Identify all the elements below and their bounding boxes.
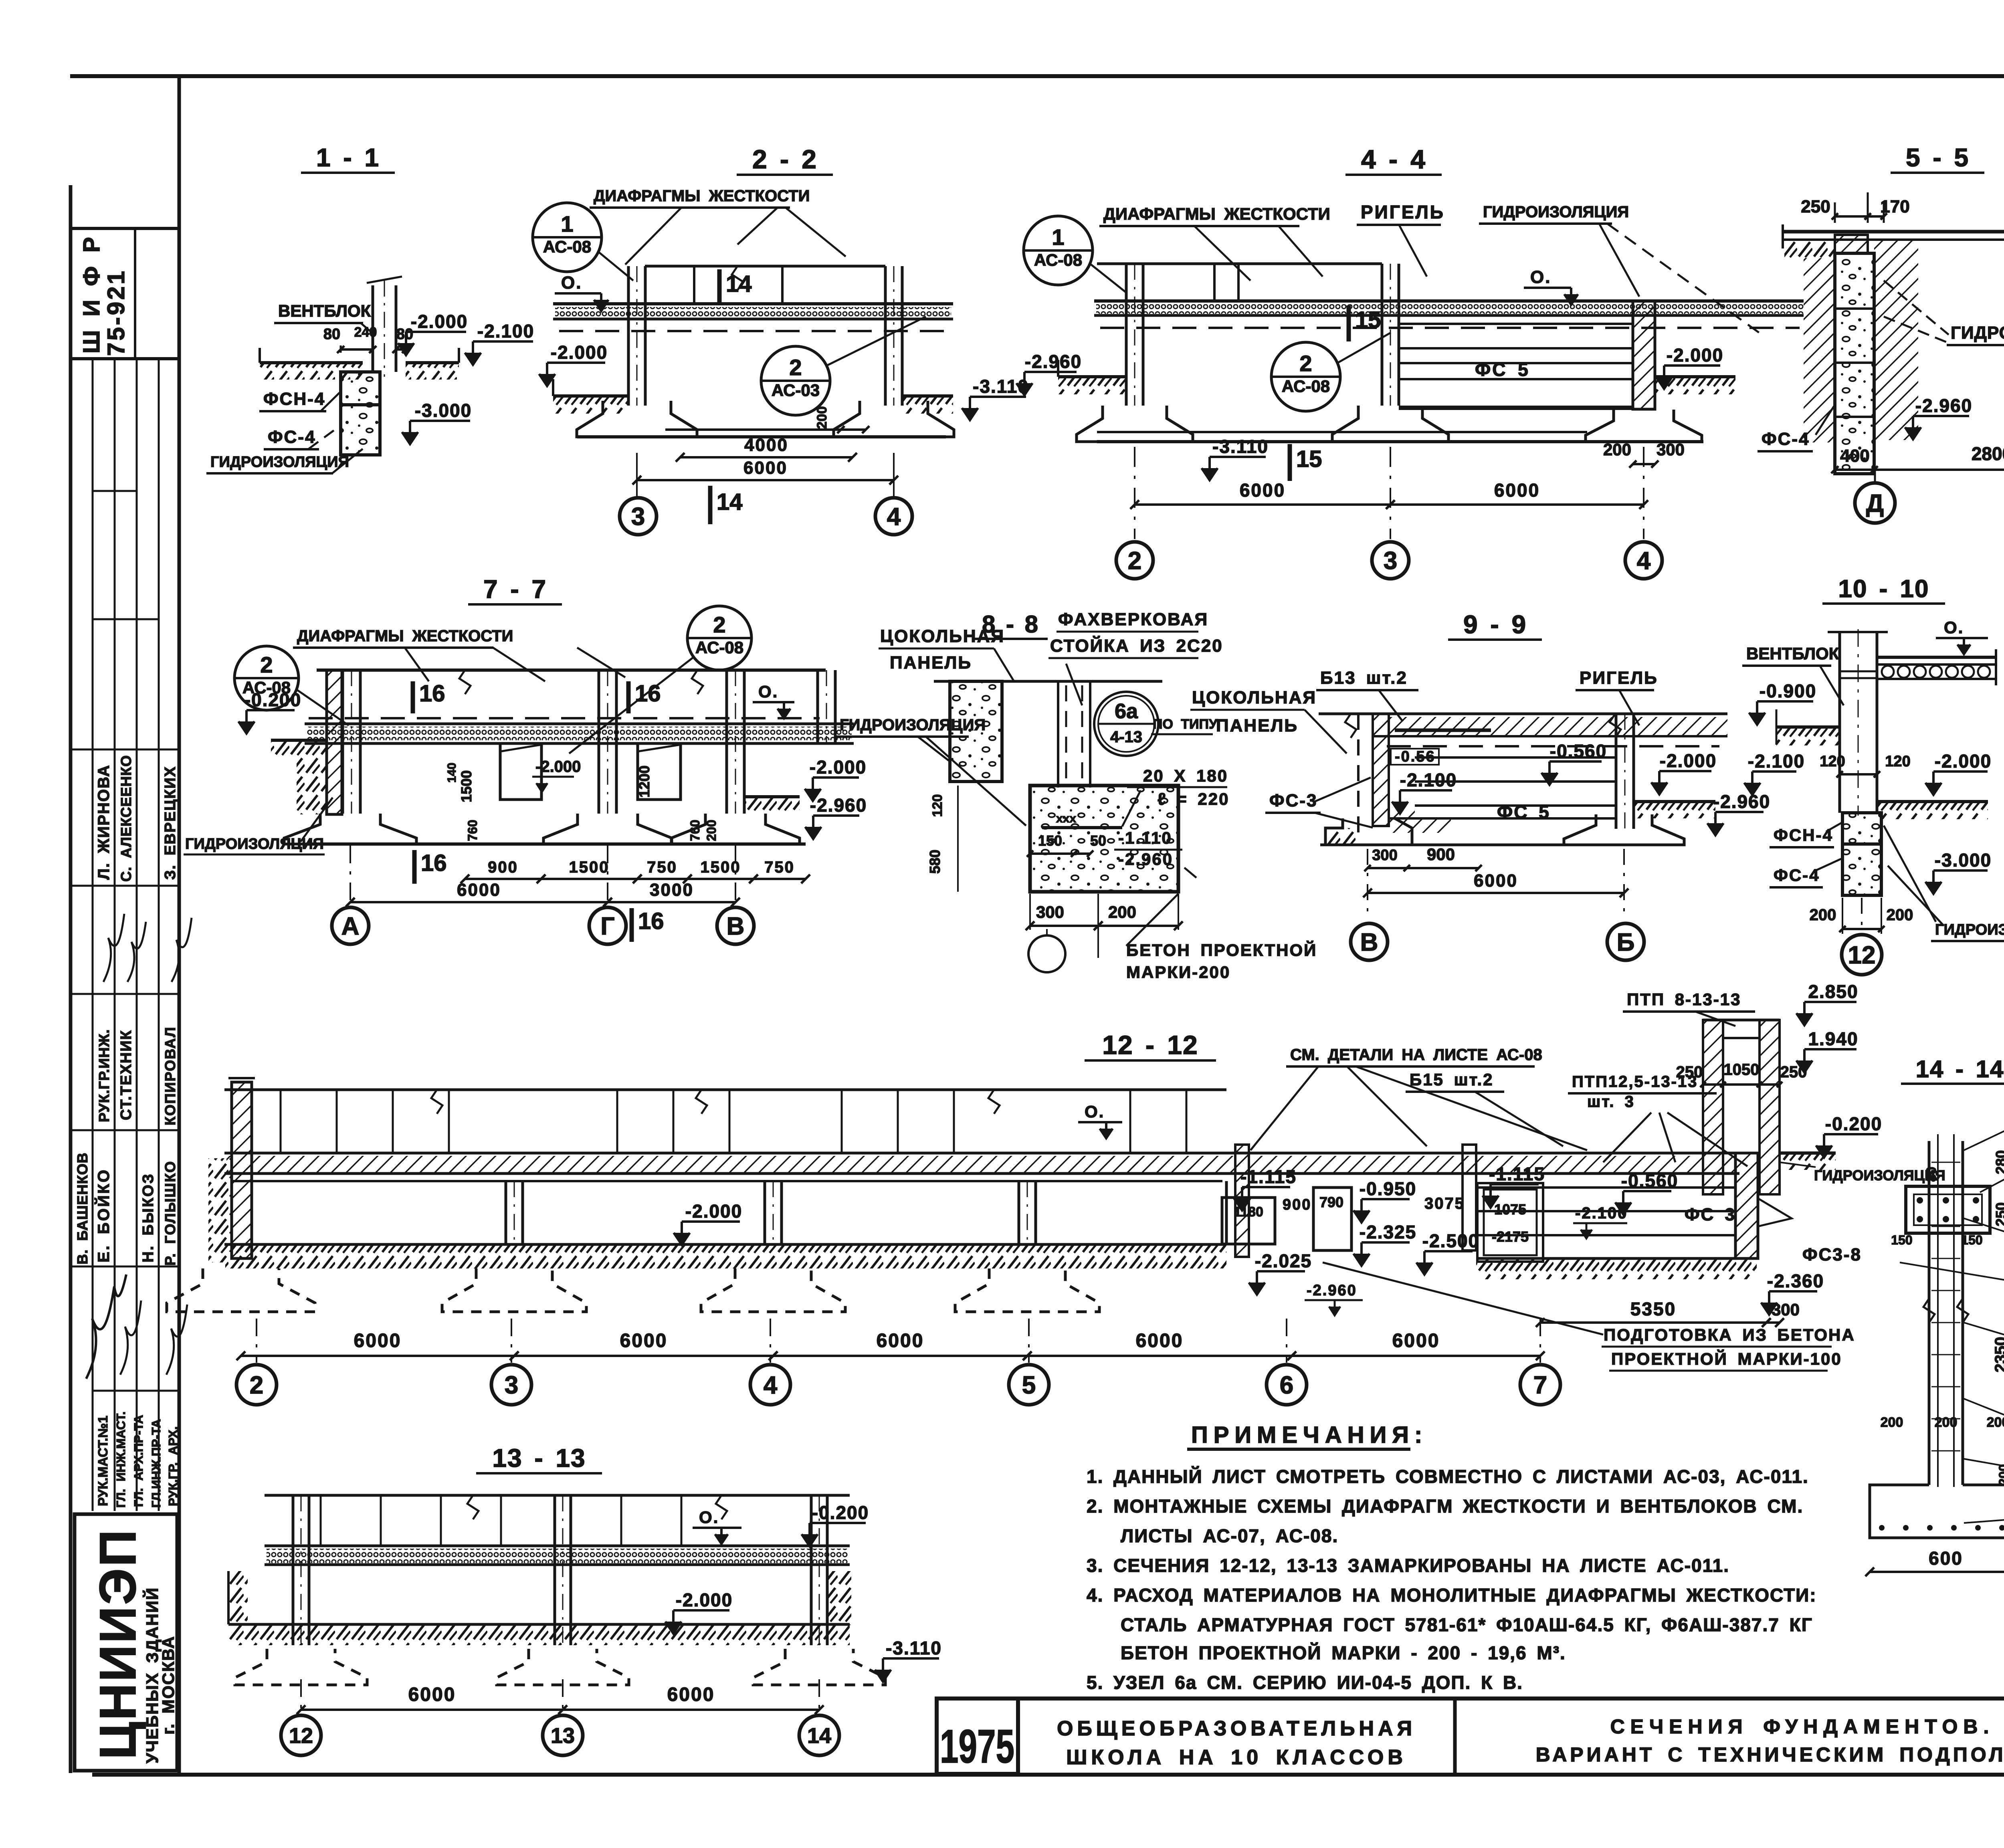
svg-text:300: 300 [1372, 847, 1397, 864]
svg-text:ФС3-8: ФС3-8 [1802, 1245, 1862, 1264]
9-9 level -0.560 [1549, 760, 1602, 763]
svg-text:ПО ТИПУ: ПО ТИПУ [1153, 717, 1218, 732]
13-13 dim 6000 a [301, 1709, 563, 1711]
svg-text:5 - 5: 5 - 5 [1906, 143, 1969, 172]
svg-text:4: 4 [887, 503, 901, 531]
svg-text:9 - 9: 9 - 9 [1463, 610, 1527, 639]
svg-text:3. СЕЧЕНИЯ 12-12, 13-13 ЗАМ: 3. СЕЧЕНИЯ 12-12, 13-13 ЗАМАРКИРОВАНЫ НА… [1087, 1555, 1729, 1576]
svg-text:200: 200 [814, 406, 830, 429]
svg-text:ЦНИИЭП: ЦНИИЭП [89, 1528, 147, 1759]
4-4 floor slab [1094, 299, 1804, 303]
4-4 right wall hatched [1633, 301, 1655, 409]
sidebar stamp ШИФР 75-921 [71, 227, 179, 230]
12-12 footing dashed 3 [442, 1268, 586, 1312]
9-9 ground right [1634, 800, 1715, 803]
10-10 level -0.900 [1757, 700, 1813, 703]
svg-text:-2.000: -2.000 [535, 758, 581, 776]
svg-text:75-921: 75-921 [103, 269, 129, 356]
2-2 ground hatch left [553, 394, 628, 398]
4-4 mid footing [1332, 406, 1448, 442]
svg-text:ПРИМЕЧАНИЯ:: ПРИМЕЧАНИЯ: [1191, 1422, 1428, 1448]
svg-text:-1.115: -1.115 [1489, 1163, 1545, 1184]
svg-text:150: 150 [1891, 1233, 1912, 1247]
svg-text:3000: 3000 [650, 880, 694, 900]
10-10 grid bubble 12 [1842, 935, 1882, 975]
9-9 level -2.000 right [1659, 770, 1711, 772]
10-10 foundation ФС-4 [1842, 844, 1881, 895]
svg-text:-2.100: -2.100 [477, 321, 534, 341]
svg-text:1500: 1500 [458, 770, 475, 802]
svg-text:16: 16 [635, 681, 661, 707]
svg-text:15: 15 [1296, 446, 1322, 472]
svg-text:900: 900 [488, 858, 518, 876]
13-13 mid column [554, 1495, 556, 1645]
12-12 levels inside basement [1242, 1186, 1290, 1188]
9-9 beam plate Б13 [1395, 729, 1491, 732]
8-8 detail circle 6а [1094, 692, 1158, 756]
svg-text:РУК.ГР.ИНЖ.: РУК.ГР.ИНЖ. [96, 1029, 112, 1122]
svg-text:-2.000: -2.000 [1660, 750, 1717, 771]
svg-text:6000: 6000 [408, 1684, 456, 1705]
7-7 level -2.960 right [813, 814, 859, 817]
svg-text:250: 250 [1993, 1202, 2004, 1226]
12-12 column at axis 5 [1018, 1181, 1020, 1244]
4-4 level -3.110 [1210, 456, 1266, 458]
12-12 footing dashed left [167, 1268, 315, 1312]
7-7 left wall hatched [327, 670, 342, 814]
9-9 baseline [1320, 844, 1684, 846]
8-8 basement panel [950, 681, 1002, 782]
12-12 opening 1180 [1222, 1198, 1275, 1244]
sidebar signatures 1 [103, 914, 124, 982]
2-2 ground hatch right [902, 394, 953, 398]
4-4 baseline [1097, 431, 1587, 433]
svg-text:ОБЩЕОБРАЗОВАТЕЛЬНАЯ: ОБЩЕОБРАЗОВАТЕЛЬНАЯ [1057, 1717, 1416, 1740]
8-8 anchor plate [1042, 826, 1122, 829]
7-7 right column [725, 670, 728, 814]
svg-text:900: 900 [1283, 1196, 1311, 1213]
12-12 grid bubble 2 [236, 1365, 277, 1405]
10-10 floor slab right [1877, 656, 1996, 659]
4-4 detail circle 2 АС-08 [1271, 342, 1340, 411]
5-5 top slab line [1783, 230, 2004, 234]
4-4 left column [1125, 264, 1128, 406]
svg-text:-2.000: -2.000 [551, 342, 608, 363]
svg-text:ДИАФРАГМЫ ЖЕСТКОСТИ: ДИАФРАГМЫ ЖЕСТКОСТИ [1103, 204, 1330, 223]
svg-text:1050: 1050 [1724, 1061, 1760, 1079]
svg-text:АС-08: АС-08 [1034, 250, 1082, 269]
svg-text:14: 14 [807, 1724, 831, 1748]
svg-text:ДИАФРАГМЫ ЖЕСТКОСТИ: ДИАФРАГМЫ ЖЕСТКОСТИ [297, 627, 513, 645]
svg-text:ФАХВЕРКОВАЯ: ФАХВЕРКОВАЯ [1058, 610, 1208, 629]
14-14 top rebar box [1906, 1186, 1990, 1233]
svg-text:200: 200 [1935, 1415, 1958, 1430]
2-2 right footing [834, 401, 954, 437]
4-4 cut 15 bottom [1288, 444, 1292, 481]
svg-text:16: 16 [419, 681, 445, 707]
9-9 dashed panel line [1357, 714, 1360, 838]
svg-text:14: 14 [726, 271, 752, 297]
svg-text:АС-03: АС-03 [772, 381, 820, 400]
svg-text:200: 200 [1987, 1415, 2004, 1430]
svg-text:В: В [1360, 929, 1378, 956]
svg-text:ЦОКОЛЬНАЯ: ЦОКОЛЬНАЯ [1192, 688, 1317, 707]
2-2 detail circle 1 АС-08 [533, 203, 602, 272]
12-12 level -0.200 [1824, 1133, 1878, 1135]
svg-text:РИГЕЛЬ: РИГЕЛЬ [1580, 668, 1658, 688]
svg-text:200: 200 [1881, 1415, 1903, 1430]
svg-text:ФСН-4: ФСН-4 [1774, 826, 1833, 844]
svg-text:-0.560: -0.560 [1621, 1170, 1678, 1191]
13-13 dim 6000 b [563, 1709, 819, 1711]
svg-text:250: 250 [1801, 197, 1830, 216]
7-7 footing right [671, 814, 800, 844]
7-7 dim 6000 3000 [350, 901, 608, 903]
5-5 grid bubble Д [1855, 483, 1895, 523]
svg-text:14: 14 [717, 489, 743, 515]
2-2 dim 6000 [637, 479, 894, 481]
svg-text:Н. БЫКОЗ: Н. БЫКОЗ [140, 1173, 157, 1262]
svg-text:ГЛ.ИНЖ.ПР-ТА: ГЛ.ИНЖ.ПР-ТА [149, 1419, 163, 1508]
13-13 grid bubble 14 [799, 1715, 839, 1755]
svg-text:О.: О. [561, 273, 582, 293]
12-12 level 1.940 [1804, 1048, 1857, 1050]
svg-text:12: 12 [289, 1724, 313, 1748]
13-13 ground band [228, 1623, 850, 1626]
svg-text:ℓ = 220: ℓ = 220 [1158, 790, 1229, 808]
svg-text:ПОДГОТОВКА ИЗ БЕТОНА: ПОДГОТОВКА ИЗ БЕТОНА [1604, 1325, 1855, 1344]
13-13 left column [292, 1495, 295, 1645]
svg-text:200: 200 [1108, 903, 1136, 921]
12-12 level -2.000 [682, 1220, 740, 1223]
10-10 hollow cores [1882, 666, 1894, 678]
svg-text:250: 250 [1676, 1063, 1703, 1081]
7-7 mid column [598, 670, 600, 814]
8-8 stanchion column dashed [1057, 681, 1059, 788]
2-2 diaphragm wall band [645, 265, 885, 268]
4-4 grid bubble 2 [1116, 542, 1153, 579]
svg-text:ГИДРОИЗОЛЯЦИЯ: ГИДРОИЗОЛЯЦИЯ [840, 716, 986, 734]
svg-text:5: 5 [1022, 1371, 1036, 1399]
svg-text:-2.000: -2.000 [676, 1589, 733, 1610]
2-2 zero level mark [555, 292, 601, 295]
svg-text:О.: О. [1530, 267, 1551, 287]
svg-text:80: 80 [1924, 1167, 1939, 1182]
svg-text:-2.000: -2.000 [1667, 345, 1723, 366]
drawing border frame [70, 74, 2004, 78]
svg-text:2: 2 [250, 1371, 263, 1399]
12-12 dim 6000 a [241, 1355, 514, 1357]
svg-text:-1.110: -1.110 [1118, 828, 1172, 847]
svg-text:1: 1 [561, 211, 573, 236]
4-4 zero level [1524, 287, 1571, 289]
svg-text:Е. БОЙКО: Е. БОЙКО [94, 1168, 113, 1262]
svg-text:3: 3 [1384, 547, 1397, 575]
svg-text:760: 760 [465, 820, 480, 841]
9-9 dim 6000 [1368, 892, 1624, 894]
4-4 grid bubble 4 [1625, 542, 1662, 579]
7-7 window opening right [638, 743, 681, 800]
10-10 level -2.100 [1752, 770, 1796, 773]
svg-text:20 X 180: 20 X 180 [1143, 766, 1228, 785]
12-12 level -0.560 [1623, 1190, 1671, 1192]
svg-text:2: 2 [1299, 351, 1312, 376]
svg-text:1 - 1: 1 - 1 [316, 143, 380, 172]
svg-text:КОПИРОВАЛ: КОПИРОВАЛ [162, 1026, 178, 1125]
1-1 level -2.000 [406, 331, 466, 333]
svg-text:А: А [341, 913, 360, 940]
svg-text:О.: О. [699, 1508, 719, 1527]
7-7 left column [341, 670, 344, 814]
title block school name [1453, 1699, 1457, 1775]
svg-text:4000: 4000 [744, 435, 788, 455]
svg-text:1: 1 [1052, 224, 1064, 250]
svg-text:750: 750 [764, 858, 795, 876]
svg-text:С. АЛЕКСЕЕНКО: С. АЛЕКСЕЕНКО [118, 755, 134, 882]
12-12 vent shaft walls [1703, 1020, 1723, 1194]
7-7 grid bubble А [332, 907, 369, 944]
svg-text:280: 280 [1993, 1150, 2004, 1174]
12-12 dim 6000 e [1292, 1355, 1540, 1357]
leader lines 14-14 [1964, 1112, 2004, 1150]
svg-text:2800: 2800 [1972, 443, 2004, 464]
svg-text:-2.960: -2.960 [810, 795, 867, 816]
svg-text:3: 3 [631, 503, 645, 531]
svg-text:ФС 3: ФС 3 [1685, 1205, 1736, 1224]
svg-text:АС-08: АС-08 [543, 237, 591, 256]
12-12 column at axis 3 [505, 1181, 507, 1244]
svg-text:240: 240 [354, 325, 377, 340]
svg-text:-2.100: -2.100 [1748, 751, 1805, 772]
svg-text:6000: 6000 [354, 1330, 402, 1351]
12-12 ground hatch left wall [208, 1158, 232, 1262]
svg-text:120: 120 [1820, 753, 1845, 770]
13-13 footing dashed mid [497, 1649, 629, 1685]
12-12 dim 6000 b [514, 1355, 773, 1357]
svg-text:900: 900 [1427, 845, 1455, 864]
14-14 dim 600 [1870, 1571, 2004, 1573]
svg-text:ФС-4: ФС-4 [1762, 429, 1810, 449]
2-2 left column [627, 266, 630, 406]
4-4 left footing [1077, 406, 1193, 442]
svg-text:2350: 2350 [1992, 1337, 2004, 1373]
1-1 level -2.100 [473, 340, 533, 343]
svg-text:6000: 6000 [1494, 480, 1540, 501]
1-1 ventblock column [372, 285, 374, 372]
svg-text:580: 580 [927, 850, 943, 874]
svg-text:ФС-3: ФС-3 [1269, 791, 1317, 810]
svg-text:7: 7 [1533, 1371, 1547, 1399]
svg-text:5350: 5350 [1630, 1299, 1676, 1319]
10-10 ventblock column [1838, 632, 1841, 813]
svg-text:РУК.МАСТ.№1: РУК.МАСТ.№1 [95, 1416, 110, 1506]
svg-text:ФС-4: ФС-4 [1774, 866, 1820, 885]
4-4 ФС5 wall [1399, 323, 1633, 325]
svg-text:80: 80 [323, 326, 340, 343]
svg-text:6: 6 [1280, 1371, 1293, 1399]
svg-text:4 - 4: 4 - 4 [1361, 144, 1426, 174]
svg-text:4. РАСХОД МАТЕРИАЛОВ НА МО: 4. РАСХОД МАТЕРИАЛОВ НА МОНОЛИТНЫЕ ДИАФР… [1087, 1585, 1817, 1606]
svg-text:-3.110: -3.110 [886, 1638, 942, 1658]
13-13 level -3.110 [883, 1657, 939, 1660]
svg-text:6а: 6а [1115, 700, 1138, 723]
svg-text:200: 200 [1810, 906, 1836, 924]
9-9 top slab hatched [1319, 713, 1727, 715]
2-2 dim 4000 [680, 456, 853, 458]
14-14 footing [1870, 1485, 2004, 1538]
7-7 ground left [271, 739, 327, 742]
9-9 ground left under footing [1325, 828, 1358, 845]
svg-text:-3.110: -3.110 [1212, 436, 1269, 457]
svg-text:6000: 6000 [620, 1330, 668, 1351]
svg-text:6000: 6000 [667, 1684, 715, 1705]
10-10 zero level [1936, 637, 1988, 639]
7-7 floor slab [305, 723, 854, 725]
svg-text:ГИДРОИЗОЛЯЦИЯ: ГИДРОИЗОЛЯЦИЯ [210, 454, 349, 471]
svg-text:6000: 6000 [1136, 1330, 1184, 1351]
svg-text:50: 50 [1090, 832, 1106, 849]
8-8 foundation block [1030, 786, 1178, 892]
2-2 basement floor line [577, 435, 946, 438]
svg-text:6000: 6000 [457, 880, 501, 900]
svg-text:-2.500: -2.500 [1422, 1230, 1479, 1251]
svg-text:200: 200 [1887, 906, 1913, 924]
4-4 ground right [1655, 375, 1735, 378]
svg-text:ПРОЕКТНОЙ МАРКИ-100: ПРОЕКТНОЙ МАРКИ-100 [1611, 1349, 1842, 1368]
10-10 foundation ФСН-4 [1842, 813, 1881, 844]
svg-text:-1.115: -1.115 [1240, 1166, 1297, 1187]
svg-text:ГИДРОИЗОЛЯЦИЯ: ГИДРОИЗОЛЯЦИЯ [1951, 323, 2004, 343]
12-12 grid bubble 3 [491, 1365, 531, 1405]
svg-text:6000: 6000 [1240, 480, 1285, 501]
5-5 level -2.960 [1913, 415, 1969, 417]
svg-text:2: 2 [260, 652, 273, 677]
13-13 level -2.000 [673, 1609, 729, 1612]
12-12 floor slab hatched [224, 1152, 1739, 1155]
svg-text:-2.325: -2.325 [1360, 1222, 1416, 1242]
12-12 footing dashed 4 [701, 1268, 845, 1312]
12-12 ground under right basement [1476, 1259, 1757, 1279]
svg-text:-0.950: -0.950 [1360, 1178, 1416, 1199]
title block frame [937, 1697, 2004, 1701]
4-4 level -2.960 [1024, 371, 1077, 373]
svg-text:6000: 6000 [877, 1330, 924, 1351]
svg-text:З. ЕВРЕЦКИХ: З. ЕВРЕЦКИХ [162, 766, 179, 880]
svg-text:120: 120 [930, 794, 945, 817]
svg-text:АС-08: АС-08 [1282, 377, 1330, 396]
13-13 zero level [693, 1527, 741, 1529]
svg-text:БЕТОН ПРОЕКТНОЙ: БЕТОН ПРОЕКТНОЙ [1126, 940, 1317, 959]
2-2 cut mark 14 bottom [708, 486, 713, 524]
7-7 far right column [816, 670, 819, 743]
svg-text:ПАНЕЛЬ: ПАНЕЛЬ [890, 653, 972, 673]
svg-text:ЦОКОЛЬНАЯ: ЦОКОЛЬНАЯ [880, 626, 1005, 646]
svg-text:16: 16 [638, 908, 664, 934]
13-13 right side hatch [827, 1571, 851, 1625]
svg-text:ГЛ. ИНЖ.МАСТ.: ГЛ. ИНЖ.МАСТ. [114, 1412, 128, 1508]
svg-text:ВЕНТБЛОК: ВЕНТБЛОК [278, 301, 371, 320]
svg-text:1. ДАННЫЙ ЛИСТ СМОТРЕТЬ СО: 1. ДАННЫЙ ЛИСТ СМОТРЕТЬ СОВМЕСТНО С ЛИСТ… [1087, 1466, 1809, 1487]
12-12 right wall hatched [1735, 1153, 1758, 1258]
svg-text:ФС 5: ФС 5 [1475, 359, 1530, 380]
12-12 left wall [232, 1082, 252, 1258]
7-7 level zero right [753, 701, 794, 703]
svg-text:-2.000: -2.000 [810, 757, 867, 778]
4-4 mid column [1381, 264, 1384, 406]
svg-text:-0.200: -0.200 [1825, 1113, 1882, 1134]
svg-text:2. МОНТАЖНЫЕ СХЕМЫ ДИАФРАГМ: 2. МОНТАЖНЫЕ СХЕМЫ ДИАФРАГМ ЖЕСТКОСТИ И … [1087, 1496, 1803, 1517]
13-13 upper verticals [320, 1495, 322, 1546]
svg-text:400: 400 [1840, 446, 1869, 466]
svg-text:300: 300 [1036, 903, 1064, 921]
svg-text:-2.025: -2.025 [1255, 1250, 1312, 1271]
10-10 ground left [1776, 725, 1840, 729]
7-7 level -0.200 [246, 709, 295, 711]
svg-text:200: 200 [1996, 1464, 2004, 1485]
svg-text:АС-08: АС-08 [695, 638, 743, 657]
svg-text:ФС 5: ФС 5 [1497, 802, 1550, 822]
svg-text:Б15 шт.2: Б15 шт.2 [1410, 1070, 1494, 1089]
2-2 detail circle 2 АС-03 [761, 346, 830, 415]
7-7 cut 16 bottom [412, 850, 417, 884]
svg-text:-2.960: -2.960 [1915, 395, 1972, 416]
svg-text:3075: 3075 [1424, 1195, 1465, 1212]
svg-text:600: 600 [1929, 1548, 1963, 1569]
svg-text:Ш И Ф Р: Ш И Ф Р [79, 235, 105, 353]
svg-text:3: 3 [505, 1371, 518, 1399]
svg-text:-2.960: -2.960 [1118, 850, 1173, 868]
svg-text:ВАРИАНТ С ТЕХНИЧЕСКИМ ПОДПО: ВАРИАНТ С ТЕХНИЧЕСКИМ ПОДПОЛЬЕМ. [1536, 1743, 2004, 1766]
svg-text:-3.000: -3.000 [415, 400, 472, 421]
svg-text:СЕЧЕНИЯ ФУНДАМЕНТОВ.: СЕЧЕНИЯ ФУНДАМЕНТОВ. [1610, 1715, 1995, 1738]
7-7 detail circle 2 АС-08 left [234, 646, 299, 710]
svg-text:ВЕНТБЛОК: ВЕНТБЛОК [1746, 644, 1839, 663]
svg-text:О.: О. [1944, 618, 1964, 637]
svg-text:790: 790 [1319, 1194, 1343, 1210]
13-13 footing dashed right [753, 1649, 885, 1685]
1-1 level -3.000 [410, 420, 470, 422]
2-2 left footing [577, 401, 697, 437]
svg-text:-2.960: -2.960 [1025, 351, 1082, 372]
8-8 bottom circle [1028, 935, 1065, 972]
8-8 top line [934, 680, 1162, 683]
svg-text:16: 16 [421, 850, 447, 876]
5-5 left wall cap hatched [1835, 235, 1868, 253]
svg-text:250: 250 [1780, 1063, 1807, 1081]
svg-text:СТ.ТЕХНИК: СТ.ТЕХНИК [118, 1030, 135, 1120]
1-1 ground line [260, 361, 363, 364]
12-12 dim 300 [1766, 1321, 1780, 1324]
7-7 window opening left [500, 743, 541, 800]
svg-text:2: 2 [713, 612, 725, 637]
svg-text:120: 120 [1885, 753, 1910, 770]
13-13 footing dashed left [235, 1649, 367, 1685]
1-1 foundation block ФС-4 [341, 405, 380, 455]
svg-text:6000: 6000 [1474, 871, 1518, 891]
sidebar signatures 2 [86, 1274, 126, 1379]
svg-text:14 - 14: 14 - 14 [1916, 1056, 2004, 1083]
svg-text:13: 13 [551, 1724, 575, 1748]
svg-text:-3.000: -3.000 [1935, 850, 1992, 870]
7-7 footing mid [543, 814, 672, 844]
14-14 column outline [1928, 1141, 1931, 1485]
7-7 window level -2.000 [532, 776, 574, 778]
sidebar outer edge [69, 185, 73, 1773]
2-2 right column [884, 266, 887, 406]
svg-text:РУК.ГР. АРХ.: РУК.ГР. АРХ. [166, 1426, 180, 1506]
svg-text:ШКОЛА НА 10 КЛАССОВ: ШКОЛА НА 10 КЛАССОВ [1066, 1746, 1407, 1769]
9-9 level -2.100 [1400, 789, 1452, 792]
